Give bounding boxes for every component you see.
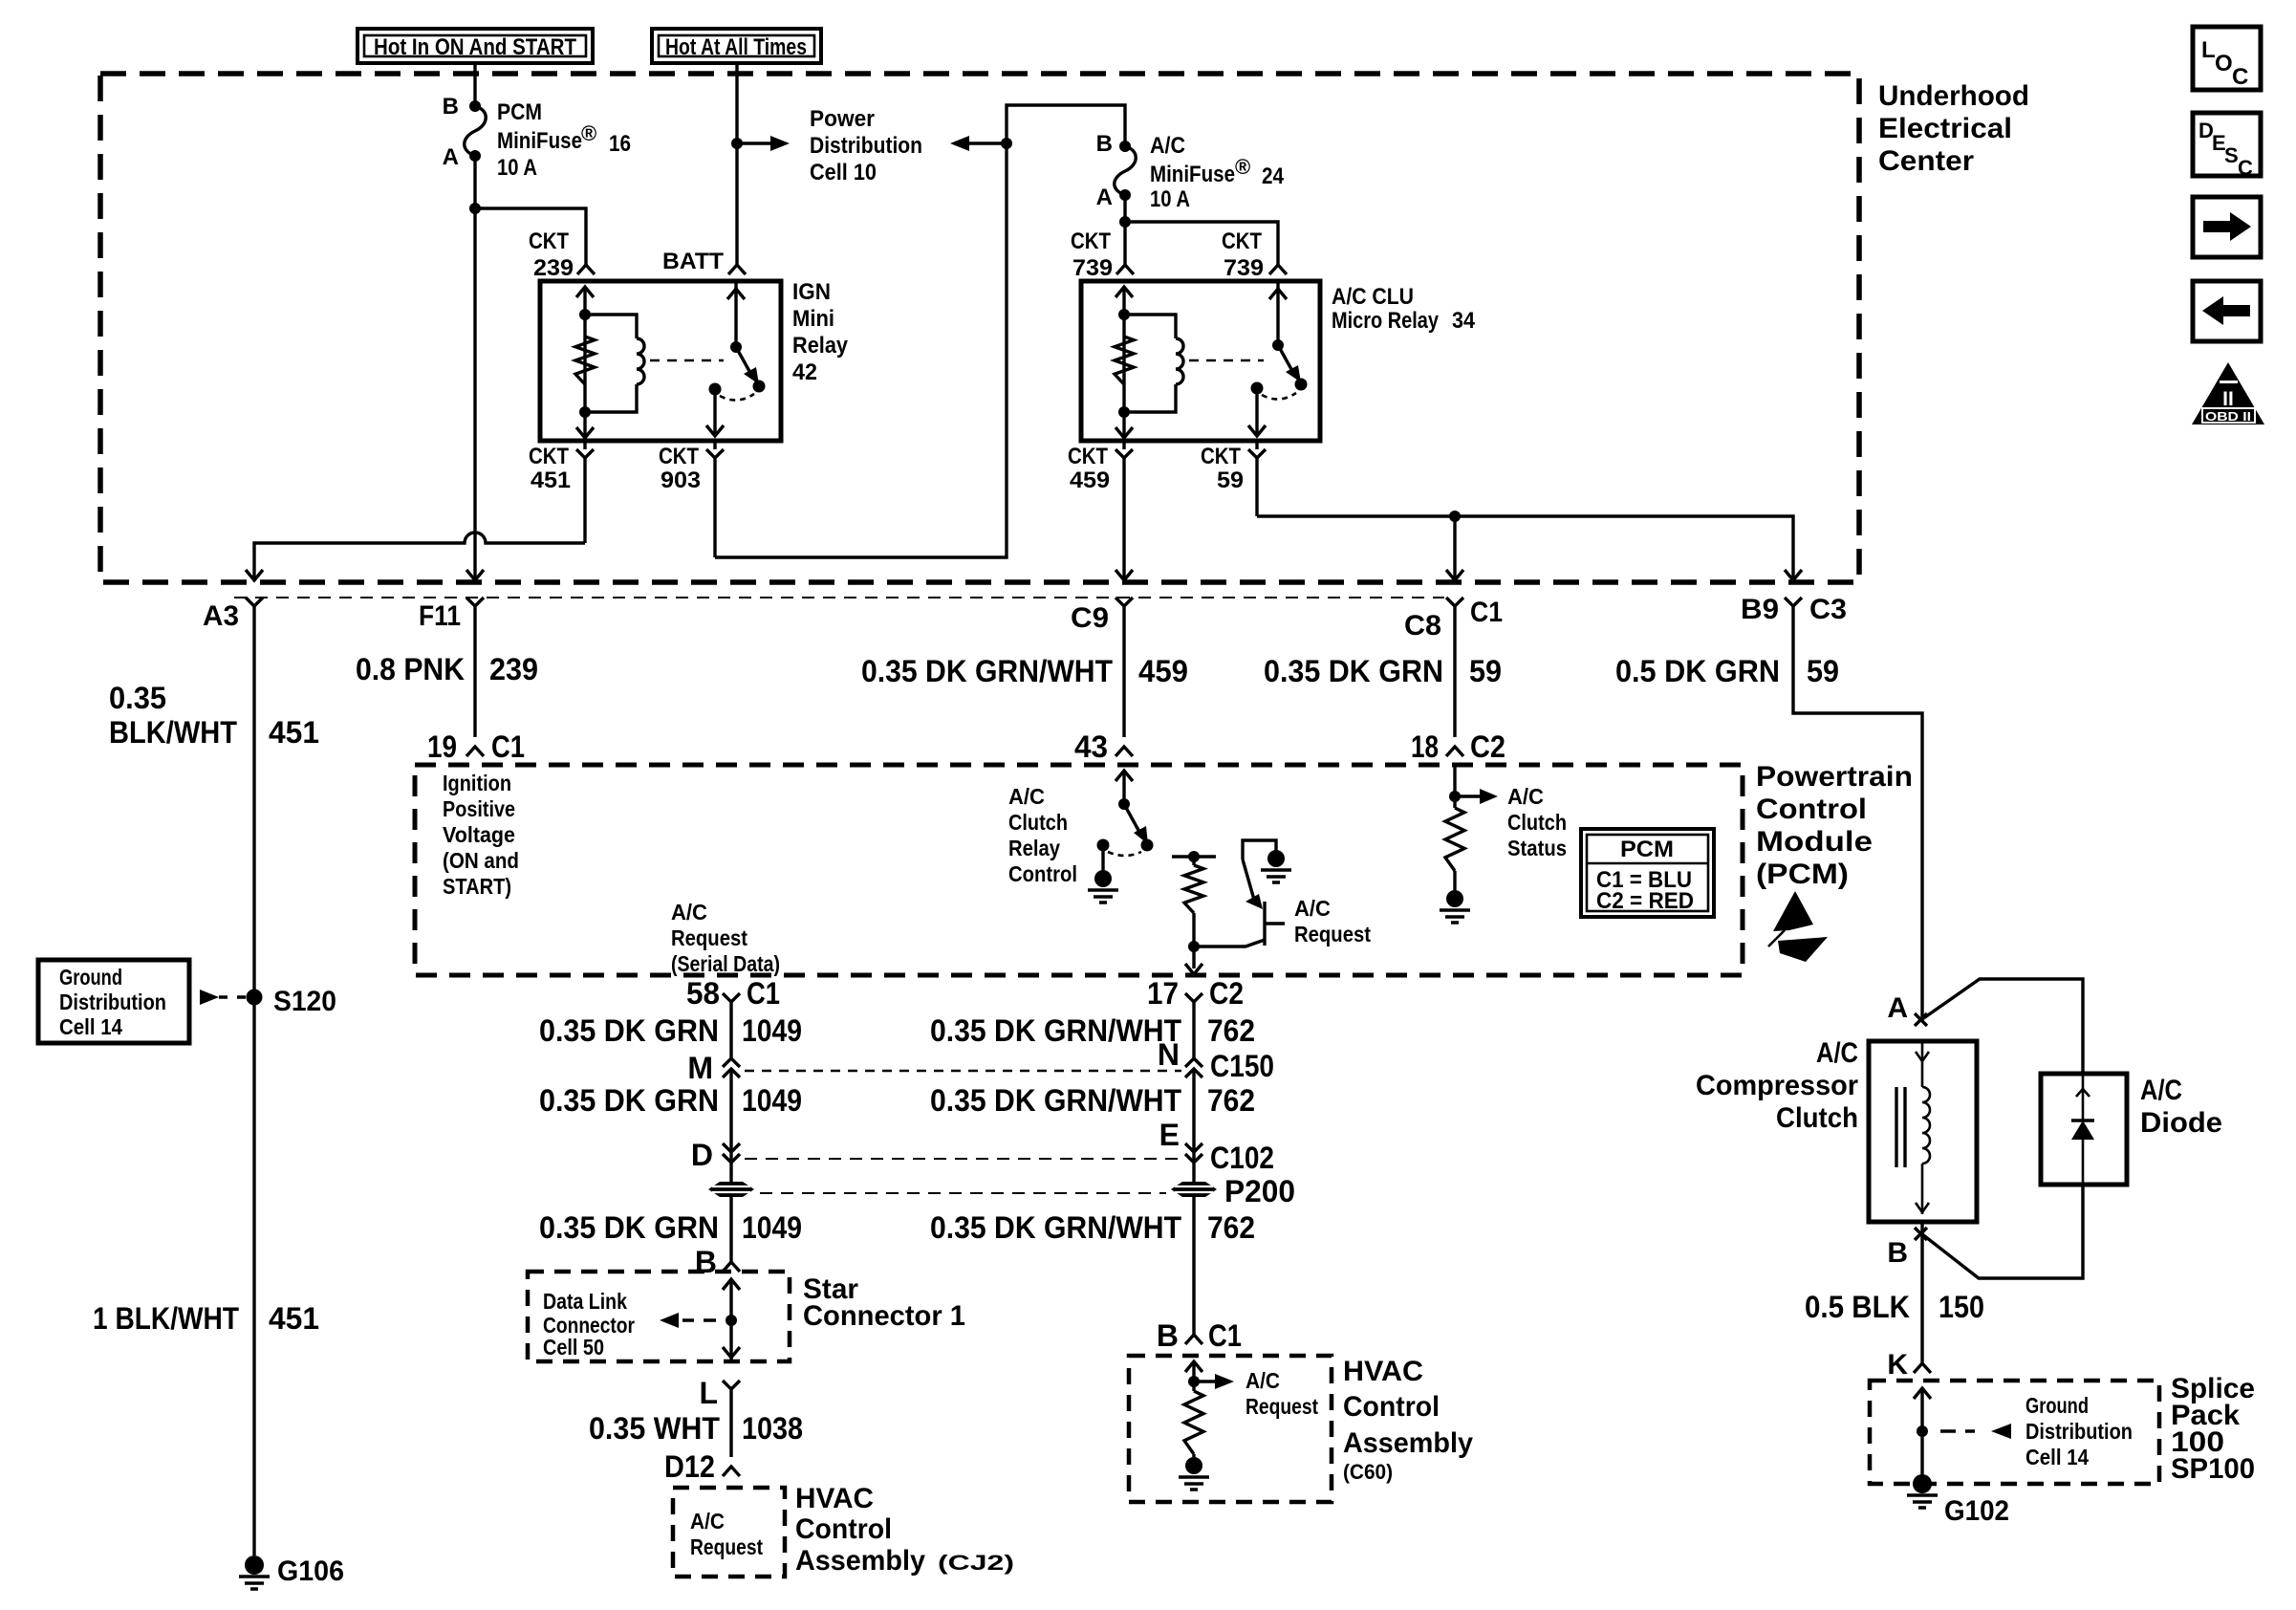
svg-text:®: ® <box>1235 155 1250 179</box>
svg-text:0.5 DK GRN: 0.5 DK GRN <box>1615 654 1780 688</box>
wire CKT451 run left to A3 with hop over F11 wire <box>254 533 585 579</box>
svg-text:Electrical: Electrical <box>1878 113 2012 144</box>
svg-text:1049: 1049 <box>742 1210 802 1245</box>
svg-text:Cell 10: Cell 10 <box>810 160 877 185</box>
header box Hot In ON And START <box>357 29 593 63</box>
svg-text:(C60): (C60) <box>1343 1460 1393 1484</box>
svg-text:Distribution: Distribution <box>2025 1419 2133 1444</box>
ESD symbol <box>1773 891 1813 931</box>
svg-text:HVAC: HVAC <box>795 1483 874 1514</box>
connector B C1 (fork down) <box>1185 1335 1202 1344</box>
svg-text:Power: Power <box>810 106 875 132</box>
svg-text:10 A: 10 A <box>497 155 537 181</box>
svg-text:C: C <box>2232 64 2248 90</box>
relay coil leg (left) <box>583 287 586 412</box>
svg-text:D: D <box>691 1138 713 1172</box>
svg-text:762: 762 <box>1207 1083 1255 1118</box>
wire diagonal from B to diode bottom <box>1922 1185 2083 1278</box>
svg-text:1 BLK/WHT: 1 BLK/WHT <box>93 1301 239 1336</box>
svg-text:A/C: A/C <box>1150 133 1185 159</box>
svg-text:A/C: A/C <box>1507 784 1544 809</box>
Splice Pack dashed box <box>1870 1381 2159 1484</box>
svg-text:Clutch: Clutch <box>1008 810 1068 835</box>
svg-text:Center: Center <box>1878 145 1974 177</box>
resistor inside relay <box>575 337 595 384</box>
svg-text:Compressor: Compressor <box>1696 1070 1858 1101</box>
ground G102 <box>1913 1474 1932 1493</box>
svg-text:24: 24 <box>1262 163 1285 189</box>
svg-text:(Serial Data): (Serial Data) <box>671 951 780 976</box>
svg-text:A/C: A/C <box>671 900 707 925</box>
svg-text:0.35 DK GRN/WHT: 0.35 DK GRN/WHT <box>930 1013 1181 1048</box>
svg-text:M: M <box>687 1051 713 1085</box>
A/C Compressor Clutch box <box>1869 1041 1977 1222</box>
svg-text:Request: Request <box>671 925 747 950</box>
svg-text:(CJ2): (CJ2) <box>938 1551 1014 1575</box>
dashed connector line D-E <box>745 1158 1181 1160</box>
arrow to Power Distribution (from BATT riser) <box>737 141 770 144</box>
relay coil winding <box>585 315 637 338</box>
HVAC Control Assembly C60 dashed box <box>1129 1356 1332 1502</box>
wire fuse A down to F11 arrow <box>473 156 476 579</box>
svg-text:CKT: CKT <box>529 228 569 254</box>
ground G106 <box>245 1556 264 1575</box>
diode symbol <box>2082 1074 2085 1185</box>
wire inside star connector <box>729 1279 732 1361</box>
svg-text:P200: P200 <box>1224 1174 1295 1208</box>
svg-text:17: 17 <box>1147 976 1179 1011</box>
dashed arrow to Data Link <box>682 1318 716 1321</box>
svg-text:C150: C150 <box>1210 1049 1274 1083</box>
svg-text:Hot At All Times: Hot At All Times <box>665 34 807 60</box>
svg-text:739: 739 <box>1224 255 1264 281</box>
pass-through grommet P200 left <box>708 1182 754 1197</box>
svg-text:59: 59 <box>1807 654 1839 688</box>
svg-text:Request: Request <box>1294 922 1371 946</box>
svg-text:C8: C8 <box>1404 610 1441 642</box>
svg-text:10 A: 10 A <box>1150 186 1190 212</box>
icon right arrow box <box>2193 197 2261 257</box>
svg-text:16: 16 <box>609 131 631 157</box>
A/C relay coil winding <box>1124 315 1176 338</box>
svg-text:1049: 1049 <box>742 1083 802 1118</box>
svg-text:C2: C2 <box>1470 729 1505 764</box>
arrow from box to S120 <box>200 990 219 1005</box>
svg-text:MiniFuse: MiniFuse <box>1150 162 1235 187</box>
svg-text:B: B <box>1157 1318 1179 1353</box>
svg-text:A: A <box>443 144 459 170</box>
svg-text:A: A <box>1096 185 1113 210</box>
svg-text:Data Link: Data Link <box>543 1289 627 1314</box>
icon left arrow box <box>2193 281 2261 341</box>
connector 19 C1 (fork down) <box>466 747 484 756</box>
A/C request transistor circuit <box>1172 855 1216 858</box>
A/C relay coil leg <box>1122 287 1125 412</box>
svg-text:S120: S120 <box>273 986 336 1017</box>
connector interface thin dashed line <box>234 597 1444 598</box>
svg-text:Assembly: Assembly <box>795 1545 925 1577</box>
connector E C102 (double chevron down) <box>1185 1143 1202 1182</box>
svg-text:Request: Request <box>1245 1394 1318 1419</box>
wire B down to K <box>1920 1222 1923 1363</box>
svg-text:762: 762 <box>1207 1210 1255 1245</box>
node C9 <box>1116 598 1133 606</box>
svg-text:451: 451 <box>269 715 319 750</box>
svg-text:Relay: Relay <box>1008 836 1060 860</box>
node A3 <box>246 598 263 606</box>
wire inside C60 box <box>1192 1361 1195 1391</box>
svg-text:B: B <box>1096 131 1113 157</box>
relay box IGN Mini Relay 42 <box>540 281 781 441</box>
svg-text:START): START) <box>443 874 511 899</box>
connector D12 (fork down) <box>723 1467 740 1476</box>
svg-text:Status: Status <box>1507 836 1567 860</box>
svg-text:Underhood: Underhood <box>1878 80 2029 112</box>
svg-text:0.35 DK GRN/WHT: 0.35 DK GRN/WHT <box>930 1083 1181 1118</box>
wire diagonal from A to diode top <box>1922 979 2083 1074</box>
svg-text:C9: C9 <box>1071 602 1109 634</box>
svg-text:G106: G106 <box>277 1556 344 1587</box>
svg-text:43: 43 <box>1074 729 1108 764</box>
svg-text:0.35 DK GRN: 0.35 DK GRN <box>539 1210 719 1245</box>
HVAC Control Assembly CJ2 dashed box <box>673 1488 785 1577</box>
dashed connector line P200 row <box>760 1192 1166 1194</box>
svg-text:N: N <box>1158 1037 1180 1072</box>
svg-text:Control: Control <box>1756 794 1867 825</box>
branch down to C1 <box>1453 516 1456 579</box>
wire CKT903 run to A/C fuse B <box>715 105 1125 557</box>
svg-text:G102: G102 <box>1944 1495 2009 1527</box>
connector D C102 (double chevron down) <box>723 1143 740 1182</box>
svg-text:II: II <box>2222 388 2234 410</box>
connector 43 (fork down) <box>1116 747 1133 756</box>
fuse A/C MiniFuse 24 <box>1119 141 1131 152</box>
svg-text:0.35 DK GRN: 0.35 DK GRN <box>539 1083 719 1118</box>
svg-text:L: L <box>2201 37 2216 63</box>
node C8 C1 <box>1446 598 1463 606</box>
svg-text:Cell 14: Cell 14 <box>2025 1445 2089 1469</box>
svg-text:B: B <box>695 1245 717 1279</box>
node B9 C3 <box>1785 598 1802 606</box>
svg-text:59: 59 <box>1217 468 1244 493</box>
Star Connector 1 dashed box <box>528 1272 790 1361</box>
svg-text:19: 19 <box>427 729 457 764</box>
svg-text:Powertrain: Powertrain <box>1756 761 1913 793</box>
svg-text:A/C CLU: A/C CLU <box>1332 284 1414 310</box>
svg-text:IGN: IGN <box>792 279 831 305</box>
svg-text:Cell 50: Cell 50 <box>543 1335 604 1360</box>
svg-text:Ground: Ground <box>2025 1393 2089 1418</box>
connector M C150 (double chevron up) <box>723 1058 740 1152</box>
svg-text:A/C: A/C <box>690 1509 725 1534</box>
svg-text:A: A <box>1887 992 1908 1024</box>
relay dashed actuation line <box>650 359 724 362</box>
svg-text:0.35 WHT: 0.35 WHT <box>589 1411 720 1446</box>
svg-text:0.35 DK GRN/WHT: 0.35 DK GRN/WHT <box>861 654 1113 688</box>
svg-text:Clutch: Clutch <box>1507 810 1567 835</box>
svg-text:150: 150 <box>1939 1290 1984 1324</box>
svg-text:0.35: 0.35 <box>109 681 166 715</box>
svg-text:S: S <box>2224 143 2239 167</box>
svg-text:BATT: BATT <box>662 249 724 274</box>
icon LOC box <box>2193 27 2261 90</box>
svg-text:CKT: CKT <box>1201 444 1241 469</box>
pass-through grommet P200 right <box>1171 1182 1217 1197</box>
connector CKT 451 (fork up) below relay <box>583 441 586 543</box>
svg-text:L: L <box>699 1376 718 1410</box>
connector 17 C2 (fork up) <box>1185 993 1202 1002</box>
svg-text:Positive: Positive <box>443 796 515 821</box>
svg-text:Ignition: Ignition <box>443 771 511 795</box>
connector CKT 239 (fork down) <box>577 265 595 274</box>
A/C clutch status resistor <box>1453 765 1456 808</box>
svg-text:459: 459 <box>1070 468 1110 493</box>
svg-text:459: 459 <box>1138 654 1188 688</box>
svg-text:K: K <box>1887 1349 1908 1381</box>
svg-text:239: 239 <box>489 652 538 686</box>
svg-text:CKT: CKT <box>1071 228 1111 254</box>
connector N C150 (double chevron up) <box>1185 1058 1202 1152</box>
svg-text:Voltage: Voltage <box>443 822 515 847</box>
svg-text:B9: B9 <box>1741 594 1779 625</box>
svg-text:C2: C2 <box>1209 976 1244 1011</box>
svg-text:Control: Control <box>1343 1391 1440 1423</box>
wire from Hot In ON down to fuse B <box>473 63 476 106</box>
svg-text:CKT: CKT <box>659 444 699 469</box>
svg-text:CKT: CKT <box>1222 228 1262 254</box>
A/C relay dashed actuation line <box>1189 359 1264 362</box>
svg-text:Hot In ON And START: Hot In ON And START <box>374 34 576 60</box>
icon OBD II triangle <box>2192 362 2264 424</box>
Underhood Electrical Center dashed box <box>100 74 1859 582</box>
svg-text:739: 739 <box>1072 255 1113 281</box>
header box Hot At All Times <box>652 29 821 63</box>
svg-text:239: 239 <box>533 255 574 281</box>
wire fuse A down to CKT 739 left <box>1123 195 1126 265</box>
wire branch to CKT 739 right <box>1125 222 1278 265</box>
svg-text:762: 762 <box>1207 1013 1255 1048</box>
svg-text:451: 451 <box>531 468 571 493</box>
relay switch <box>734 281 737 347</box>
svg-text:Relay: Relay <box>792 333 849 359</box>
Ground Distribution Cell 14 box (left) <box>38 960 189 1043</box>
svg-text:(PCM): (PCM) <box>1756 859 1849 890</box>
node S120 <box>247 990 263 1006</box>
svg-text:Distribution: Distribution <box>810 133 922 159</box>
connector CKT 459 (fork up) below A/C relay <box>1122 441 1125 579</box>
svg-text:A/C: A/C <box>1294 896 1331 921</box>
connector CKT 739 left (fork down) <box>1116 265 1134 274</box>
svg-text:Distribution: Distribution <box>59 990 166 1014</box>
connector CKT 739 right (fork down) <box>1269 265 1287 274</box>
dashed arrow to Ground Distribution Cell 14 <box>1940 1429 1975 1432</box>
svg-text:C102: C102 <box>1210 1141 1274 1175</box>
svg-text:Cell 14: Cell 14 <box>59 1014 122 1039</box>
svg-text:F11: F11 <box>419 600 461 632</box>
svg-text:34: 34 <box>1452 308 1476 334</box>
connector BATT (fork down) <box>728 265 746 274</box>
wire inside splice pack <box>1920 1388 1923 1484</box>
svg-text:0.8 PNK: 0.8 PNK <box>356 652 465 686</box>
clutch internals <box>1921 1041 1924 1087</box>
svg-text:C3: C3 <box>1809 594 1847 625</box>
svg-text:Request: Request <box>690 1534 763 1559</box>
svg-text:MiniFuse: MiniFuse <box>497 128 582 154</box>
svg-text:42: 42 <box>792 359 817 385</box>
connector L (fork up) <box>723 1381 740 1389</box>
svg-text:58: 58 <box>686 976 720 1011</box>
svg-text:0.35 DK GRN: 0.35 DK GRN <box>539 1013 719 1048</box>
svg-text:59: 59 <box>1469 654 1502 688</box>
svg-text:C: C <box>2238 156 2253 180</box>
svg-text:E: E <box>1159 1118 1180 1152</box>
connector B (tick) <box>1915 1228 1927 1240</box>
A/C clutch relay control switch <box>1122 771 1125 804</box>
wire Hot At All Times down to BATT <box>735 63 738 265</box>
svg-text:B: B <box>1887 1237 1908 1269</box>
svg-text:1038: 1038 <box>742 1411 803 1446</box>
svg-text:0.5 BLK: 0.5 BLK <box>1805 1290 1910 1324</box>
A/C relay switch <box>1276 281 1279 345</box>
svg-text:CKT: CKT <box>529 444 569 469</box>
svg-text:A/C: A/C <box>1245 1368 1280 1393</box>
svg-text:Control: Control <box>1008 861 1077 886</box>
svg-text:Clutch: Clutch <box>1776 1102 1858 1134</box>
svg-text:Assembly: Assembly <box>1343 1427 1473 1459</box>
svg-text:903: 903 <box>661 468 701 493</box>
svg-text:CKT: CKT <box>1068 444 1108 469</box>
svg-text:0.35 DK GRN/WHT: 0.35 DK GRN/WHT <box>930 1210 1181 1245</box>
svg-text:OBD II: OBD II <box>2205 409 2251 424</box>
wire branch to CKT 239 connector <box>475 208 586 265</box>
svg-text:B: B <box>443 94 459 120</box>
svg-text:Control: Control <box>795 1513 892 1545</box>
svg-text:C1: C1 <box>491 729 525 764</box>
connector CKT 903 (fork up) below relay <box>713 441 716 557</box>
connector CKT 59 (fork up) below A/C relay <box>1255 441 1258 516</box>
svg-text:451: 451 <box>269 1301 319 1336</box>
svg-text:1049: 1049 <box>742 1013 802 1048</box>
svg-text:0.35 DK GRN: 0.35 DK GRN <box>1264 654 1443 688</box>
svg-text:O: O <box>2215 51 2233 76</box>
svg-text:Diode: Diode <box>2140 1107 2222 1139</box>
wire CKT 59 run right to B9 <box>1257 516 1793 579</box>
svg-text:A/C: A/C <box>2140 1075 2182 1106</box>
connector 58 C1 (fork up) <box>723 993 740 1002</box>
svg-text:Mini: Mini <box>792 306 834 332</box>
svg-text:Micro Relay: Micro Relay <box>1332 308 1440 334</box>
svg-text:C1: C1 <box>747 976 780 1011</box>
svg-text:PCM: PCM <box>1620 837 1674 862</box>
svg-text:(ON and: (ON and <box>443 848 519 873</box>
svg-text:®: ® <box>581 121 596 145</box>
svg-text:A3: A3 <box>203 600 239 632</box>
icon DESC box <box>2193 113 2261 176</box>
svg-text:SP100: SP100 <box>2171 1453 2255 1485</box>
svg-text:A/C: A/C <box>1008 784 1045 809</box>
svg-text:C1: C1 <box>1470 597 1503 628</box>
svg-text:PCM: PCM <box>497 99 542 125</box>
svg-text:HVAC: HVAC <box>1343 1356 1423 1387</box>
connector B (fork down) <box>723 1262 740 1272</box>
transistor A/C Request <box>1263 902 1266 946</box>
svg-text:D12: D12 <box>664 1449 715 1484</box>
svg-text:C1: C1 <box>1208 1318 1242 1353</box>
PCM legend box <box>1581 829 1714 917</box>
relay box A/C CLU Micro Relay 34 <box>1081 281 1320 441</box>
svg-text:Connector 1: Connector 1 <box>803 1300 965 1332</box>
svg-text:BLK/WHT: BLK/WHT <box>109 715 237 750</box>
connector K (fork down) <box>1914 1363 1931 1373</box>
svg-text:A/C: A/C <box>1816 1037 1858 1069</box>
fuse PCM MiniFuse 16 <box>469 100 481 112</box>
svg-text:18: 18 <box>1411 729 1439 764</box>
svg-text:C2 = RED: C2 = RED <box>1596 888 1694 914</box>
svg-text:Ground: Ground <box>59 965 122 990</box>
PCM dashed box <box>415 765 1743 975</box>
arrow from CKT903 riser to Power Distribution <box>969 141 1007 144</box>
svg-text:Module: Module <box>1756 826 1873 858</box>
node F11 <box>466 598 484 606</box>
dashed connector line M-N <box>745 1070 1181 1073</box>
connector 18 C2 (fork down) <box>1446 747 1463 756</box>
A/C Diode box <box>2041 1074 2127 1185</box>
connector A (tick) <box>1915 1013 1927 1026</box>
